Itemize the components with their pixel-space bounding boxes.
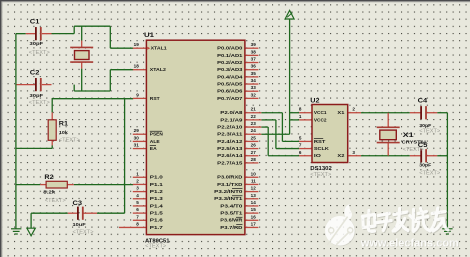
- svg-text:C2: C2: [30, 70, 40, 77]
- svg-text:17: 17: [251, 221, 257, 226]
- svg-text:P3.6/WR: P3.6/WR: [220, 218, 243, 224]
- svg-text:XTAL1: XTAL1: [151, 46, 167, 52]
- svg-text:C1: C1: [30, 19, 40, 26]
- svg-text:30pF: 30pF: [419, 123, 431, 128]
- svg-text:24: 24: [251, 128, 257, 133]
- svg-text:12: 12: [251, 186, 257, 191]
- svg-text:6: 6: [299, 150, 302, 155]
- svg-text:15: 15: [251, 207, 257, 212]
- svg-text:P1.6: P1.6: [150, 218, 163, 224]
- svg-text:23: 23: [251, 121, 257, 126]
- svg-text:<TEXT>: <TEXT>: [45, 198, 66, 204]
- svg-text:P3.3/INT1: P3.3/INT1: [214, 196, 243, 202]
- svg-text:25: 25: [251, 135, 257, 140]
- svg-text:30pF: 30pF: [419, 162, 431, 167]
- svg-text:10: 10: [251, 171, 257, 176]
- svg-text:3: 3: [352, 150, 355, 155]
- svg-text:30pF: 30pF: [30, 41, 44, 46]
- svg-text:11: 11: [251, 178, 256, 183]
- svg-text:P0.2/AD2: P0.2/AD2: [217, 60, 243, 66]
- svg-text:EA: EA: [150, 146, 157, 152]
- svg-text:18: 18: [134, 64, 140, 69]
- svg-text:5: 5: [136, 200, 139, 205]
- svg-text:36: 36: [251, 64, 257, 69]
- svg-text:P1.4: P1.4: [150, 203, 163, 209]
- svg-text:P2.7/A15: P2.7/A15: [217, 160, 243, 166]
- svg-text:<TEXT>: <TEXT>: [419, 171, 440, 177]
- svg-text:P3.1/TXD: P3.1/TXD: [217, 182, 243, 188]
- svg-text:P0.4/AD4: P0.4/AD4: [217, 74, 243, 80]
- svg-text:P2.4/A12: P2.4/A12: [217, 139, 243, 145]
- svg-text:SCLK: SCLK: [314, 146, 330, 152]
- svg-text:P1.0: P1.0: [150, 175, 163, 181]
- svg-text:ALE: ALE: [150, 139, 160, 145]
- svg-text:<TEXT>: <TEXT>: [29, 100, 50, 106]
- svg-text:<TEXT>: <TEXT>: [29, 50, 50, 56]
- svg-text:P1.1: P1.1: [150, 182, 163, 188]
- svg-text:VCC2: VCC2: [314, 117, 327, 123]
- svg-text:P0.6/AD6: P0.6/AD6: [217, 89, 243, 95]
- svg-text:P3.4/T0: P3.4/T0: [220, 203, 243, 209]
- svg-text:C4: C4: [418, 98, 428, 105]
- svg-text:P0.7/AD7: P0.7/AD7: [217, 96, 243, 102]
- svg-text:<TEXT>: <TEXT>: [419, 128, 440, 134]
- svg-text:1: 1: [136, 171, 139, 176]
- svg-text:16: 16: [251, 214, 257, 219]
- svg-text:P3.7/RD: P3.7/RD: [220, 225, 243, 231]
- svg-text:7: 7: [299, 143, 302, 148]
- svg-text:14: 14: [251, 200, 257, 205]
- svg-text:C3: C3: [73, 200, 83, 207]
- svg-text:www.elecfans.com: www.elecfans.com: [360, 237, 459, 249]
- svg-text:32: 32: [251, 92, 257, 97]
- svg-text:19: 19: [134, 42, 140, 47]
- svg-text:22: 22: [251, 114, 257, 119]
- svg-text:21: 21: [251, 107, 257, 112]
- svg-text:1: 1: [299, 114, 302, 119]
- svg-text:CRYSTAL: CRYSTAL: [402, 139, 428, 144]
- svg-text:P2.5/A13: P2.5/A13: [217, 146, 243, 152]
- svg-text:8: 8: [299, 107, 302, 112]
- svg-text:2: 2: [352, 107, 355, 112]
- svg-text:R2: R2: [44, 174, 54, 181]
- svg-text:26: 26: [251, 143, 257, 148]
- svg-text:5: 5: [299, 135, 302, 140]
- svg-text:RST: RST: [150, 96, 160, 102]
- svg-text:35: 35: [251, 71, 257, 76]
- svg-text:<TEXT>: <TEXT>: [403, 147, 424, 153]
- svg-text:IO: IO: [314, 153, 321, 159]
- svg-text:X1: X1: [403, 132, 415, 139]
- svg-text:8: 8: [136, 221, 139, 226]
- svg-text:30: 30: [134, 135, 140, 140]
- svg-text:<TEXT>: <TEXT>: [73, 230, 94, 236]
- svg-text:P3.5/T1: P3.5/T1: [220, 211, 243, 217]
- svg-text:P0.1/AD1: P0.1/AD1: [217, 53, 243, 59]
- svg-text:28: 28: [251, 157, 257, 162]
- svg-text:P3.0/RXD: P3.0/RXD: [217, 175, 243, 181]
- svg-text:<TEXT>: <TEXT>: [59, 137, 80, 143]
- svg-text:P1.5: P1.5: [150, 211, 163, 217]
- svg-text:8.2k: 8.2k: [43, 190, 56, 195]
- svg-text:39: 39: [251, 42, 257, 47]
- svg-text:10k: 10k: [59, 130, 68, 135]
- svg-text:31: 31: [134, 143, 140, 148]
- svg-text:<TEXT>: <TEXT>: [310, 172, 331, 178]
- svg-text:27: 27: [251, 150, 257, 155]
- svg-text:10uF: 10uF: [73, 222, 86, 227]
- svg-text:P1.3: P1.3: [150, 196, 163, 202]
- svg-text:P0.3/AD3: P0.3/AD3: [217, 67, 243, 73]
- svg-text:37: 37: [251, 57, 257, 62]
- svg-text:P0.5/AD5: P0.5/AD5: [217, 81, 243, 87]
- svg-text:P2.0/A8: P2.0/A8: [220, 110, 243, 116]
- svg-text:P2.1/A9: P2.1/A9: [220, 117, 243, 123]
- svg-text:34: 34: [251, 78, 257, 83]
- svg-text:P3.2/INT0: P3.2/INT0: [214, 189, 243, 195]
- svg-text:9: 9: [136, 92, 139, 97]
- svg-text:X2: X2: [337, 153, 344, 159]
- svg-text:U2: U2: [310, 98, 320, 105]
- svg-text:P2.3/A11: P2.3/A11: [217, 132, 243, 138]
- svg-text:R1: R1: [59, 120, 69, 127]
- svg-text:X1: X1: [337, 110, 344, 116]
- svg-text:P2.2/A10: P2.2/A10: [217, 124, 243, 130]
- svg-text:30pF: 30pF: [30, 93, 44, 98]
- svg-text:<TEXT>: <TEXT>: [145, 244, 166, 250]
- svg-text:33: 33: [251, 85, 257, 90]
- svg-text:P0.0/AD0: P0.0/AD0: [217, 46, 243, 52]
- svg-text:P1.7: P1.7: [150, 225, 163, 231]
- svg-text:13: 13: [251, 193, 257, 198]
- svg-text:4: 4: [136, 193, 139, 198]
- svg-text:2: 2: [136, 178, 139, 183]
- svg-text:VCC1: VCC1: [314, 110, 327, 116]
- svg-text:3: 3: [136, 186, 139, 191]
- svg-text:38: 38: [251, 49, 257, 54]
- svg-text:P2.6/A14: P2.6/A14: [217, 153, 243, 159]
- svg-text:XTAL2: XTAL2: [150, 67, 166, 73]
- svg-text:P1.2: P1.2: [150, 189, 163, 195]
- svg-text:29: 29: [134, 128, 140, 133]
- svg-text:RST: RST: [314, 139, 326, 145]
- svg-text:6: 6: [136, 207, 139, 212]
- svg-text:PSEN: PSEN: [150, 132, 164, 138]
- svg-text:U1: U1: [144, 32, 155, 39]
- svg-text:7: 7: [136, 214, 139, 219]
